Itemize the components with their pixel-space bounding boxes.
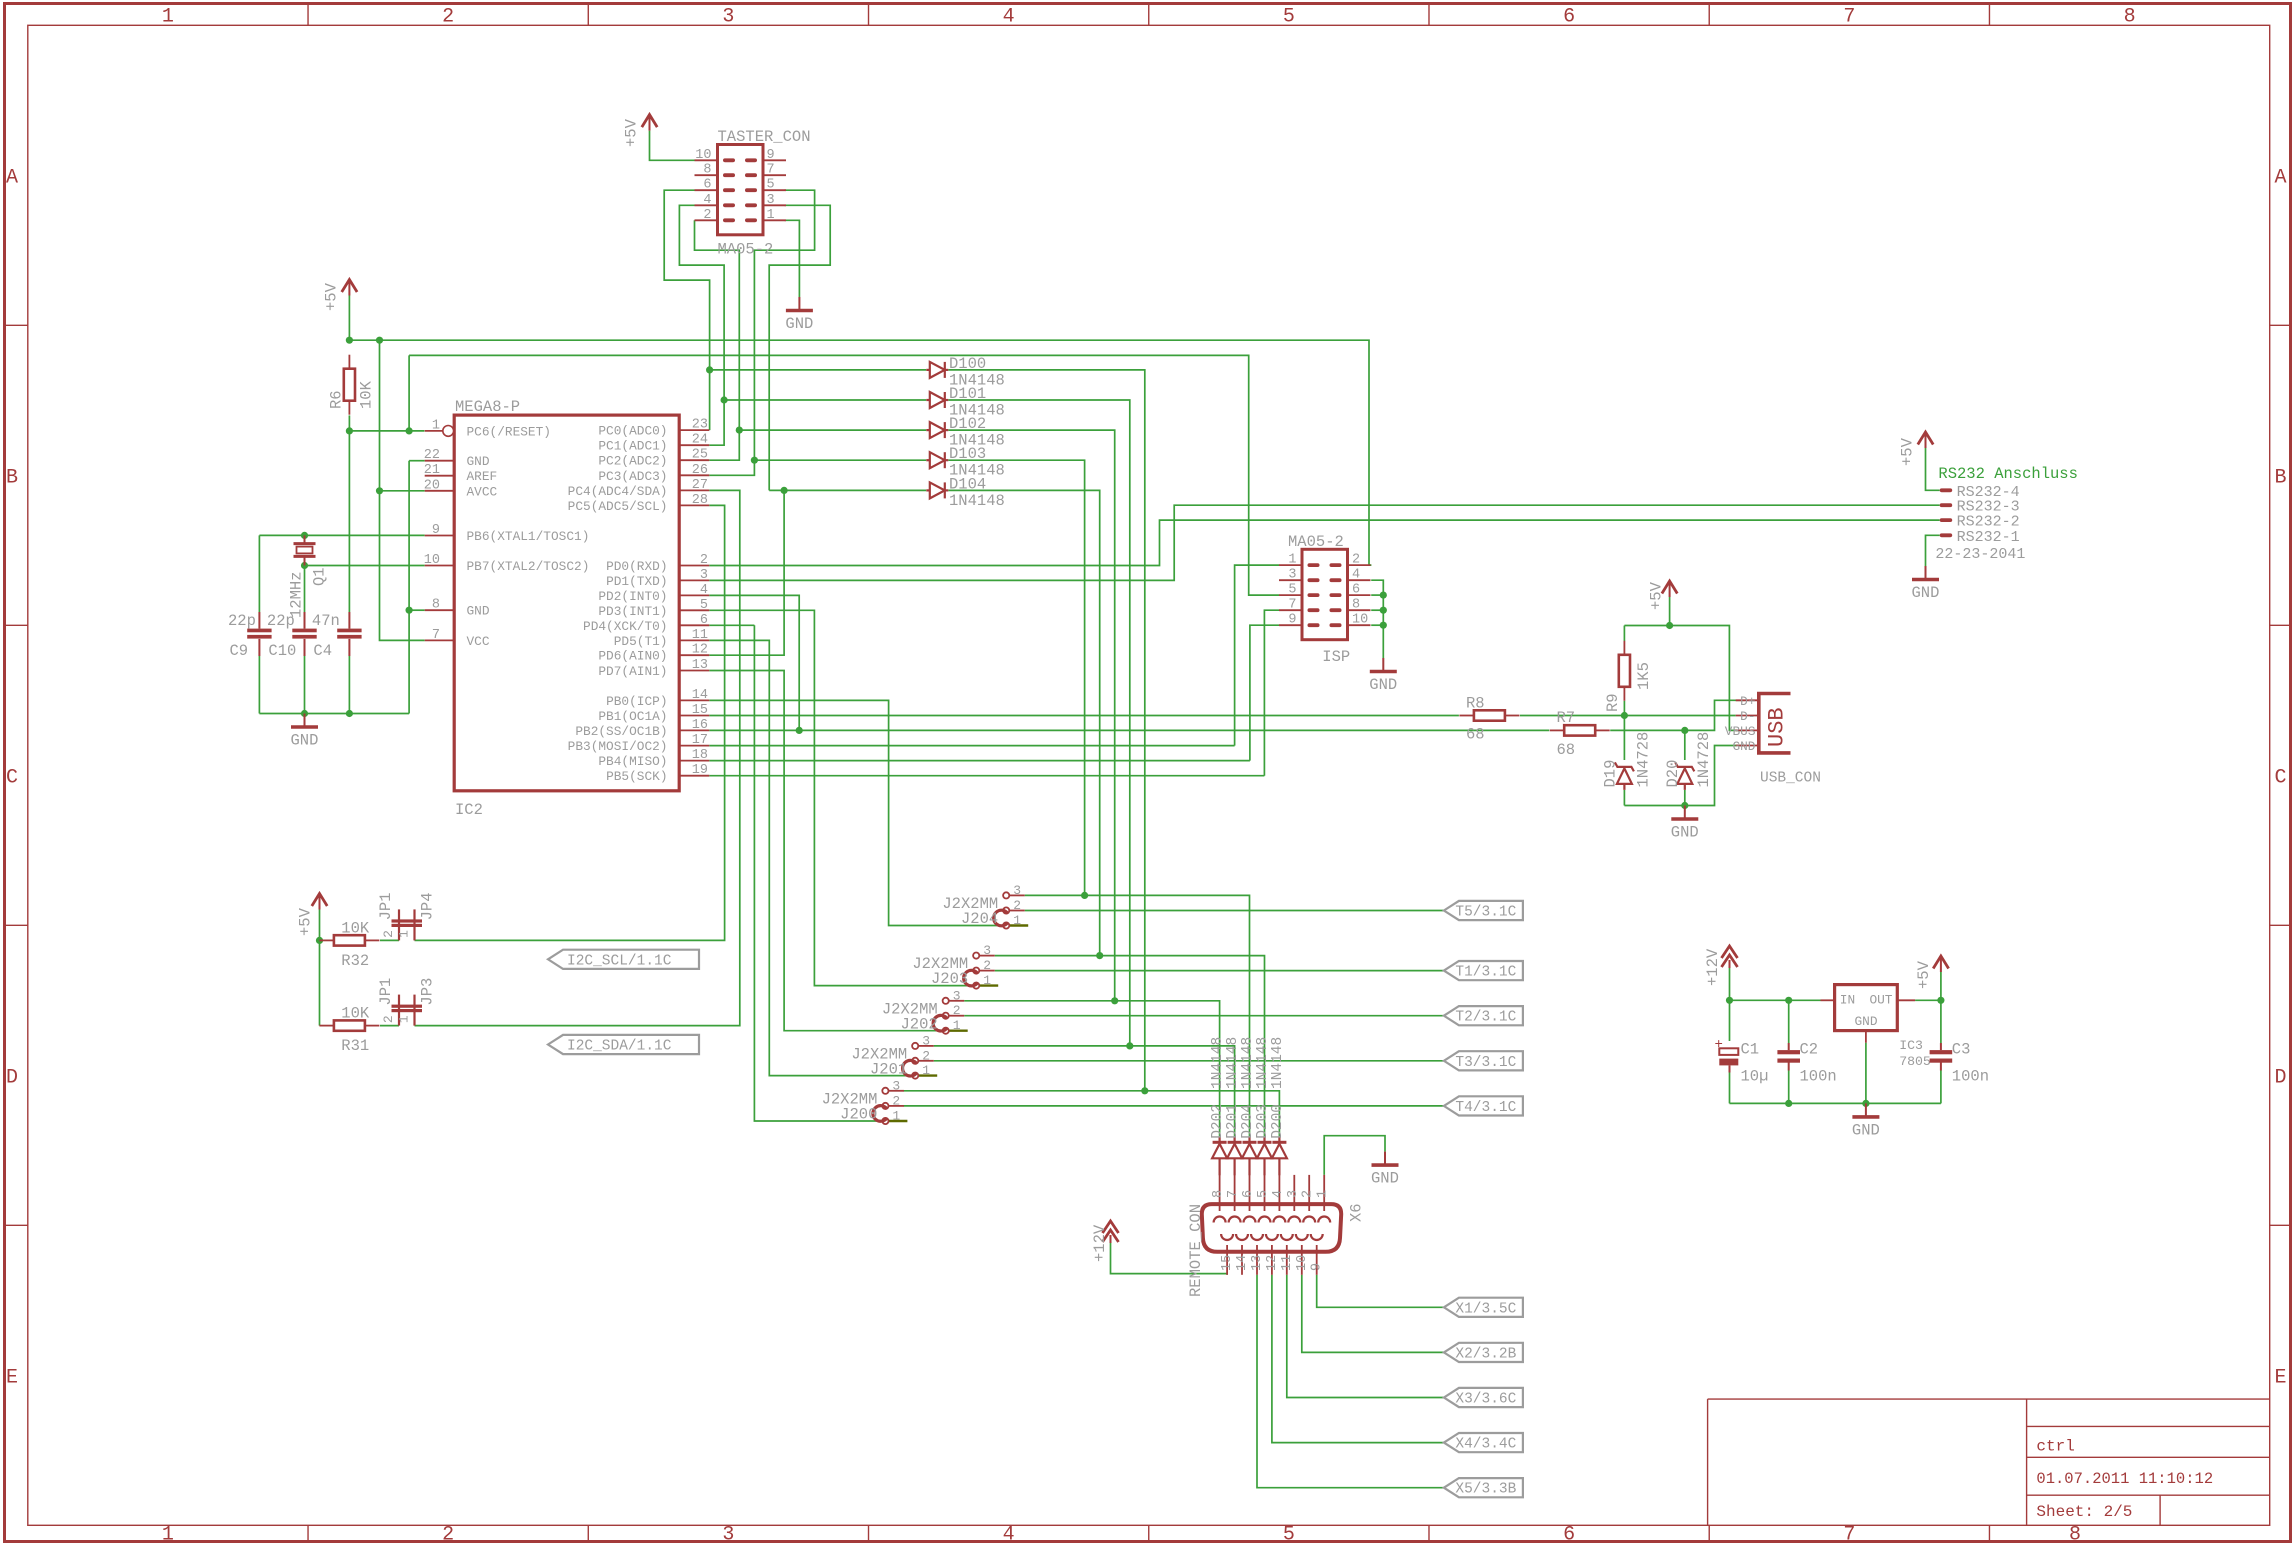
svg-text:13: 13 xyxy=(1250,1255,1265,1271)
zener diode D19 1N4728 xyxy=(1615,762,1634,790)
wire MOSI net xyxy=(709,745,1234,747)
wire GND/AREF vertical xyxy=(409,460,425,462)
wire net SDA (PC4) xyxy=(415,490,740,1025)
ground GND below zeners xyxy=(1671,806,1698,820)
svg-text:2: 2 xyxy=(983,958,991,973)
pin 20 AVCC stub xyxy=(425,490,455,492)
svg-text:+5V: +5V xyxy=(1899,437,1917,466)
svg-text:I2C_SDA/1.1C: I2C_SDA/1.1C xyxy=(567,1039,672,1055)
svg-text:13: 13 xyxy=(692,658,708,673)
svg-text:4: 4 xyxy=(1352,568,1360,583)
net flag T5/3.1C xyxy=(1444,901,1523,920)
svg-text:USB: USB xyxy=(1765,707,1790,747)
svg-text:C: C xyxy=(2274,766,2286,789)
svg-text:+5V: +5V xyxy=(1915,960,1933,989)
pin GND stub 7805 xyxy=(1865,1031,1867,1043)
+12V supply symbol xyxy=(1103,1221,1119,1243)
wire net PC0/D100/TASTER6 xyxy=(664,190,709,430)
svg-text:D203: D203 xyxy=(1255,1104,1271,1139)
svg-text:D201: D201 xyxy=(1225,1104,1241,1139)
+5V supply symbol xyxy=(642,115,657,131)
wire J201 pin2 to T3 flag xyxy=(934,1060,1444,1062)
svg-text:R32: R32 xyxy=(341,952,369,970)
svg-text:E: E xyxy=(6,1366,18,1389)
svg-text:1: 1 xyxy=(922,1063,930,1078)
svg-text:1N4148: 1N4148 xyxy=(1240,1037,1256,1089)
frame column tick top xyxy=(587,4,589,26)
capacitor C1 bottom lead xyxy=(1729,1065,1731,1072)
svg-text:8: 8 xyxy=(703,163,711,178)
pin 9 PB6(XTAL1/TOSC1) stub xyxy=(425,535,455,537)
svg-text:USB_CON: USB_CON xyxy=(1760,771,1821,787)
wire X6 pin10 to X2 flag xyxy=(1302,1275,1444,1353)
wire ISP pin2 +5V stub xyxy=(1347,564,1349,566)
diode D103 1N4148 xyxy=(926,452,948,468)
ground GND below crystal caps xyxy=(291,714,318,728)
svg-text:RS232-1: RS232-1 xyxy=(1957,529,2020,546)
pin 23 PC0(ADC0) stub xyxy=(679,429,709,431)
wire C2 leads xyxy=(1788,1000,1790,1043)
pad RS232-4 xyxy=(1940,488,1953,492)
svg-text:PD7(AIN1): PD7(AIN1) xyxy=(598,664,667,679)
svg-text:1N4148: 1N4148 xyxy=(1225,1037,1241,1089)
wire J200 pin2 to T4 flag xyxy=(904,1105,1444,1107)
frame column tick bottom xyxy=(1708,1525,1710,1541)
svg-text:2: 2 xyxy=(381,930,396,938)
svg-text:26: 26 xyxy=(692,463,708,478)
svg-text:PD3(INT1): PD3(INT1) xyxy=(598,604,667,619)
svg-text:A: A xyxy=(2274,166,2286,189)
pin 9 X6 bottom stub xyxy=(1316,1245,1318,1275)
svg-text:J201: J201 xyxy=(870,1060,907,1078)
svg-text:24: 24 xyxy=(692,433,708,448)
wire D19 branch xyxy=(1623,716,1625,761)
svg-text:TASTER_CON: TASTER_CON xyxy=(718,128,811,146)
pin 8 GND stub xyxy=(425,609,455,611)
svg-text:47n: 47n xyxy=(312,612,340,630)
svg-text:68: 68 xyxy=(1466,726,1485,744)
wire R9 vertical branch xyxy=(1623,626,1625,642)
svg-text:T2/3.1C: T2/3.1C xyxy=(1455,1010,1516,1026)
svg-text:21: 21 xyxy=(424,463,440,478)
pin 15 X6 bottom stub xyxy=(1226,1245,1228,1275)
svg-text:1N4148: 1N4148 xyxy=(1255,1037,1271,1089)
wire ground rail power supply xyxy=(1730,1102,1941,1104)
svg-text:2: 2 xyxy=(1301,1190,1316,1198)
capacitor C4 bottom lead xyxy=(348,639,350,656)
+5V supply symbol xyxy=(312,894,327,910)
svg-text:PD0(RXD): PD0(RXD) xyxy=(606,559,667,574)
wire 7805 OUT to +5V xyxy=(1915,999,1941,1001)
svg-text:VCC: VCC xyxy=(467,634,490,649)
pin 12 X6 bottom stub xyxy=(1271,1245,1273,1275)
svg-text:R6: R6 xyxy=(328,390,346,409)
pin 18 PB4(MISO) stub xyxy=(679,760,709,762)
svg-text:C2: C2 xyxy=(1800,1041,1819,1059)
frame column tick bottom xyxy=(587,1525,589,1541)
net flag T1/3.1C xyxy=(1444,961,1523,980)
frame row tick left xyxy=(5,1224,28,1226)
diode D104 1N4148 xyxy=(926,482,948,498)
diode D100 1N4148 xyxy=(926,362,948,378)
svg-text:Sheet: 2/5: Sheet: 2/5 xyxy=(2036,1503,2132,1521)
svg-text:2: 2 xyxy=(1013,898,1021,913)
frame column tick top xyxy=(1148,4,1150,26)
svg-text:5: 5 xyxy=(1283,1524,1295,1545)
frame column tick top xyxy=(868,4,870,26)
frame column tick bottom xyxy=(1428,1525,1430,1541)
svg-text:R8: R8 xyxy=(1466,695,1485,713)
diode D101 1N4148 xyxy=(926,392,948,408)
svg-text:1N4728: 1N4728 xyxy=(1635,732,1653,788)
svg-text:7: 7 xyxy=(767,163,775,178)
svg-text:4: 4 xyxy=(1271,1190,1286,1198)
pin 27 PC4(ADC4/SDA) stub xyxy=(679,489,709,491)
svg-text:6: 6 xyxy=(703,178,711,193)
wire ISP ground pins xyxy=(1371,580,1383,658)
svg-text:PB6(XTAL1/TOSC1): PB6(XTAL1/TOSC1) xyxy=(467,529,590,544)
pin IN stub xyxy=(1821,999,1835,1001)
svg-text:3: 3 xyxy=(722,1524,734,1545)
svg-text:1N4148: 1N4148 xyxy=(949,492,1005,510)
svg-text:JP3: JP3 xyxy=(419,978,437,1006)
svg-text:B: B xyxy=(2274,466,2286,489)
wire D20 branch xyxy=(1684,730,1686,760)
pin 21 AREF stub xyxy=(425,475,455,477)
svg-text:GND: GND xyxy=(1369,676,1397,694)
svg-text:1: 1 xyxy=(1288,553,1296,568)
wire +12V rail power supply xyxy=(1729,968,1731,1000)
wire PB0 to J204 pin1 xyxy=(709,700,1003,925)
pin 11 X6 bottom stub xyxy=(1286,1245,1288,1275)
svg-text:R9: R9 xyxy=(1604,693,1622,712)
svg-text:1: 1 xyxy=(767,208,775,223)
svg-text:3: 3 xyxy=(983,943,991,958)
pin VBUS USB stub xyxy=(1736,729,1759,731)
jumper J203 J2X2MM xyxy=(980,955,995,957)
svg-text:+5V: +5V xyxy=(297,907,315,936)
wire RXD to RS232-2 xyxy=(709,520,1939,565)
svg-text:7: 7 xyxy=(432,628,440,643)
svg-text:PB1(OC1A): PB1(OC1A) xyxy=(598,709,667,724)
svg-text:PB2(SS/OC1B): PB2(SS/OC1B) xyxy=(575,724,667,739)
svg-text:PC4(ADC4/SDA): PC4(ADC4/SDA) xyxy=(568,484,668,499)
svg-text:1: 1 xyxy=(162,6,174,29)
frame column tick bottom xyxy=(868,1525,870,1541)
svg-text:15: 15 xyxy=(692,703,708,718)
svg-text:+5V: +5V xyxy=(1648,581,1666,610)
svg-text:IN: IN xyxy=(1840,993,1855,1008)
diode D202 1N4148 xyxy=(1212,1136,1227,1175)
wire J202 pin2 to T2 flag xyxy=(964,1015,1444,1017)
wire X6 pin1 to GND xyxy=(1324,1136,1385,1175)
wire +5V to I2C pullups xyxy=(319,910,321,1026)
pin 5 X6 top stub xyxy=(1264,1175,1266,1211)
wire junction dots xyxy=(346,337,353,344)
svg-text:8: 8 xyxy=(1352,598,1360,613)
frame row tick right xyxy=(2270,1224,2291,1226)
svg-text:2: 2 xyxy=(922,1048,930,1063)
pin 1 inversion circle PC6 xyxy=(443,426,454,437)
svg-text:2: 2 xyxy=(892,1093,900,1108)
frame column tick top xyxy=(1708,4,1710,26)
jumper J200 J2X2MM xyxy=(889,1090,904,1092)
capacitor C10 22p xyxy=(292,629,316,633)
svg-text:22-23-2041: 22-23-2041 xyxy=(1935,546,2025,563)
wire TXD to RS232-3 xyxy=(709,505,1939,580)
svg-text:D+: D+ xyxy=(1740,694,1755,709)
svg-text:4: 4 xyxy=(700,583,708,598)
svg-text:J203: J203 xyxy=(931,970,968,988)
wire +5V rail to MEGA8 area xyxy=(348,296,350,341)
svg-text:6: 6 xyxy=(1563,1524,1575,1545)
svg-text:PB4(MISO): PB4(MISO) xyxy=(598,754,667,769)
svg-text:1: 1 xyxy=(162,1524,174,1545)
svg-text:7: 7 xyxy=(1226,1190,1241,1198)
svg-text:D19: D19 xyxy=(1602,760,1620,788)
svg-text:R31: R31 xyxy=(341,1037,369,1055)
svg-text:8: 8 xyxy=(2069,1524,2081,1545)
svg-text:PC2(ADC2): PC2(ADC2) xyxy=(598,454,667,469)
svg-text:3: 3 xyxy=(722,6,734,29)
svg-text:5: 5 xyxy=(767,178,775,193)
wire C4 bottom to ground rail xyxy=(348,656,350,714)
wire SCK net xyxy=(709,775,1264,777)
jumper J204 J2X2MM xyxy=(1010,894,1025,896)
capacitor C10 top lead xyxy=(304,612,306,629)
svg-text:3: 3 xyxy=(922,1033,930,1048)
svg-text:PB5(SCK): PB5(SCK) xyxy=(606,769,667,784)
svg-text:PD2(INT0): PD2(INT0) xyxy=(598,589,667,604)
svg-text:10: 10 xyxy=(1352,613,1368,628)
wire RESET to C4 xyxy=(348,431,350,612)
pin 22 GND stub xyxy=(425,460,455,462)
svg-text:1: 1 xyxy=(397,1015,412,1023)
svg-text:PD5(T1): PD5(T1) xyxy=(614,634,668,649)
frame row tick right xyxy=(2270,624,2291,626)
wire PD5 to J201 pin1 xyxy=(709,640,912,1075)
svg-text:4: 4 xyxy=(703,193,711,208)
svg-text:GND: GND xyxy=(1854,1014,1877,1029)
svg-text:T5/3.1C: T5/3.1C xyxy=(1455,905,1516,921)
+5V supply symbol xyxy=(1662,581,1677,597)
svg-text:22p: 22p xyxy=(267,612,295,630)
svg-text:27: 27 xyxy=(692,478,708,493)
ground GND below RS232 xyxy=(1912,566,1939,580)
svg-text:PC0(ADC0): PC0(ADC0) xyxy=(598,424,667,439)
capacitor C9 22p xyxy=(247,629,271,633)
svg-text:T3/3.1C: T3/3.1C xyxy=(1455,1055,1516,1071)
net flag T4/3.1C xyxy=(1444,1096,1523,1115)
svg-text:2: 2 xyxy=(442,6,454,29)
frame column tick bottom xyxy=(307,1525,309,1541)
svg-text:D: D xyxy=(2274,1066,2286,1089)
diode D204 1N4148 xyxy=(1242,1136,1257,1175)
svg-text:C9: C9 xyxy=(230,642,249,660)
wire USB ground rail xyxy=(1624,746,1744,806)
resistor R9 1K5 xyxy=(1623,641,1625,655)
svg-text:J202: J202 xyxy=(900,1015,937,1033)
svg-text:PC6(/RESET): PC6(/RESET) xyxy=(467,424,551,439)
svg-text:X1/3.5C: X1/3.5C xyxy=(1455,1301,1516,1317)
svg-text:8: 8 xyxy=(1211,1190,1226,1198)
+12V supply symbol xyxy=(1722,946,1738,968)
ground GND at X6 pin1 xyxy=(1372,1152,1399,1166)
capacitor C4 top lead xyxy=(348,612,350,629)
frame row tick left xyxy=(5,924,28,926)
svg-text:C1: C1 xyxy=(1741,1041,1760,1059)
pin 13 X6 bottom stub xyxy=(1256,1245,1258,1275)
svg-text:1: 1 xyxy=(892,1109,900,1124)
svg-text:10K: 10K xyxy=(341,920,370,938)
svg-text:D204: D204 xyxy=(1240,1104,1256,1139)
zener diode D20 1N4728 xyxy=(1675,762,1694,790)
svg-text:T1/3.1C: T1/3.1C xyxy=(1455,965,1516,981)
pin 24 PC1(ADC1) stub xyxy=(679,444,709,446)
wire XTAL2 net xyxy=(305,565,425,567)
svg-text:3: 3 xyxy=(767,193,775,208)
pin 19 PB5(SCK) stub xyxy=(679,775,709,777)
svg-text:PB3(MOSI/OC2): PB3(MOSI/OC2) xyxy=(568,739,668,754)
svg-text:3: 3 xyxy=(700,568,708,583)
wire AVCC pin 20 xyxy=(380,490,425,492)
svg-text:1: 1 xyxy=(432,418,440,433)
svg-text:GND: GND xyxy=(1371,1170,1399,1188)
pad RS232-1 xyxy=(1940,533,1953,537)
svg-text:C3: C3 xyxy=(1952,1041,1971,1059)
svg-text:OUT: OUT xyxy=(1869,993,1892,1008)
svg-text:2: 2 xyxy=(1352,553,1360,568)
svg-text:7805: 7805 xyxy=(1899,1054,1931,1069)
svg-text:GND: GND xyxy=(1732,739,1755,754)
svg-text:3: 3 xyxy=(1288,568,1296,583)
net flag T3/3.1C xyxy=(1444,1051,1523,1070)
svg-text:GND: GND xyxy=(1912,584,1940,602)
svg-text:15: 15 xyxy=(1220,1255,1235,1271)
capacitor C9 top lead xyxy=(258,612,260,629)
svg-text:1: 1 xyxy=(397,930,412,938)
wire +5V to TASTER_CON pin 10 xyxy=(650,131,695,161)
title block xyxy=(1708,1398,2270,1400)
svg-text:I2C_SCL/1.1C: I2C_SCL/1.1C xyxy=(567,953,672,969)
svg-text:MA05-2: MA05-2 xyxy=(718,241,774,259)
net flag I2C_SDA/1.1C xyxy=(548,1035,699,1054)
svg-text:1N4148: 1N4148 xyxy=(1210,1037,1226,1089)
svg-text:JP1: JP1 xyxy=(377,978,395,1006)
pin 17 PB3(MOSI/OC2) stub xyxy=(679,745,709,747)
svg-text:7: 7 xyxy=(1843,1524,1855,1545)
svg-text:23: 23 xyxy=(692,418,708,433)
svg-text:3: 3 xyxy=(953,988,961,1003)
svg-text:+12V: +12V xyxy=(1704,948,1722,986)
pin 13 PD7(AIN1) stub xyxy=(679,670,709,672)
pin 26 PC3(ADC3) stub xyxy=(679,474,709,476)
svg-text:4: 4 xyxy=(1003,6,1015,29)
pad RS232-3 xyxy=(1940,503,1953,507)
svg-text:D103: D103 xyxy=(949,445,986,463)
svg-text:28: 28 xyxy=(692,493,708,508)
wire INT0/PB2/D+ net xyxy=(709,595,799,730)
pin 3 X6 top stub xyxy=(1293,1175,1295,1211)
svg-text:6: 6 xyxy=(1241,1190,1256,1198)
pin 10 X6 bottom stub xyxy=(1301,1245,1303,1275)
svg-text:D102: D102 xyxy=(949,415,986,433)
ground GND below TASTER_CON xyxy=(786,297,813,311)
pin D+ USB stub xyxy=(1736,699,1759,701)
svg-text:18: 18 xyxy=(692,748,708,763)
svg-text:1: 1 xyxy=(1316,1190,1331,1198)
svg-text:1: 1 xyxy=(953,1018,961,1033)
svg-text:1: 1 xyxy=(1013,913,1021,928)
pin 7 X6 top stub xyxy=(1234,1175,1236,1211)
net flag T2/3.1C xyxy=(1444,1006,1523,1025)
wire RS232-1 to GND xyxy=(1926,535,1940,566)
resistor R31 10K xyxy=(319,1025,334,1027)
capacitor C9 bottom lead xyxy=(258,639,260,656)
svg-text:GND: GND xyxy=(1852,1121,1880,1139)
svg-text:5: 5 xyxy=(1256,1190,1271,1198)
svg-text:11: 11 xyxy=(1280,1255,1295,1271)
pin 6 PD4(XCK/T0) stub xyxy=(679,624,709,626)
wire net PC2/D102/TASTER2 xyxy=(695,220,740,430)
pin 6 X6 top stub xyxy=(1249,1175,1251,1211)
svg-text:01.07.2011 11:10:12: 01.07.2011 11:10:12 xyxy=(2036,1470,2213,1488)
svg-text:ISP: ISP xyxy=(1322,648,1350,666)
net flag X2/3.2B xyxy=(1444,1343,1523,1362)
frame column tick top xyxy=(1988,4,1990,26)
resistor R32 10K xyxy=(319,939,334,941)
pin 25 PC2(ADC2) stub xyxy=(679,459,709,461)
svg-text:2: 2 xyxy=(381,1015,396,1023)
pin 14 X6 bottom stub xyxy=(1241,1245,1243,1275)
svg-text:12: 12 xyxy=(692,643,708,658)
jumper J201 J2X2MM xyxy=(919,1045,934,1047)
wire +5V to RS232-4 xyxy=(1926,448,1940,490)
+5V supply symbol xyxy=(342,280,357,296)
wire J204 pin2 to T5 flag xyxy=(1025,910,1444,912)
svg-text:ctrl: ctrl xyxy=(2036,1438,2074,1456)
svg-text:MA05-2: MA05-2 xyxy=(1288,533,1344,551)
diode D203 1N4148 xyxy=(1257,1136,1272,1175)
svg-text:JP1: JP1 xyxy=(377,892,395,920)
svg-text:D20: D20 xyxy=(1664,760,1682,788)
pin 2 PD0(RXD) stub xyxy=(679,565,709,567)
svg-text:X3/3.6C: X3/3.6C xyxy=(1455,1392,1516,1408)
jumper JP3 xyxy=(398,995,400,1026)
net flag I2C_SCL/1.1C xyxy=(548,950,699,969)
diode D200 1N4148 xyxy=(1272,1136,1287,1175)
frame column tick top xyxy=(1428,4,1430,26)
wire +5V to AVCC and VCC xyxy=(380,340,425,640)
ground GND below 7805 xyxy=(1852,1103,1879,1117)
svg-text:D100: D100 xyxy=(949,355,986,373)
net flag X5/3.3B xyxy=(1444,1478,1523,1497)
svg-text:PD1(TXD): PD1(TXD) xyxy=(606,574,667,589)
svg-text:PD4(XCK/T0): PD4(XCK/T0) xyxy=(583,619,667,634)
svg-text:1N4148: 1N4148 xyxy=(1270,1037,1286,1089)
svg-text:22p: 22p xyxy=(228,612,256,630)
svg-text:6: 6 xyxy=(700,613,708,628)
wire X6 pin11 to X3 flag xyxy=(1287,1275,1444,1398)
svg-text:Q1: Q1 xyxy=(311,567,329,586)
frame column tick bottom xyxy=(1988,1525,1990,1541)
svg-text:REMOTE_CON: REMOTE_CON xyxy=(1187,1204,1205,1297)
capacitor C10 bottom lead xyxy=(304,639,306,656)
svg-text:1N4728: 1N4728 xyxy=(1695,732,1713,788)
svg-text:8: 8 xyxy=(2124,6,2136,29)
pin GND USB stub xyxy=(1736,745,1759,747)
+5V supply symbol xyxy=(1933,956,1948,972)
